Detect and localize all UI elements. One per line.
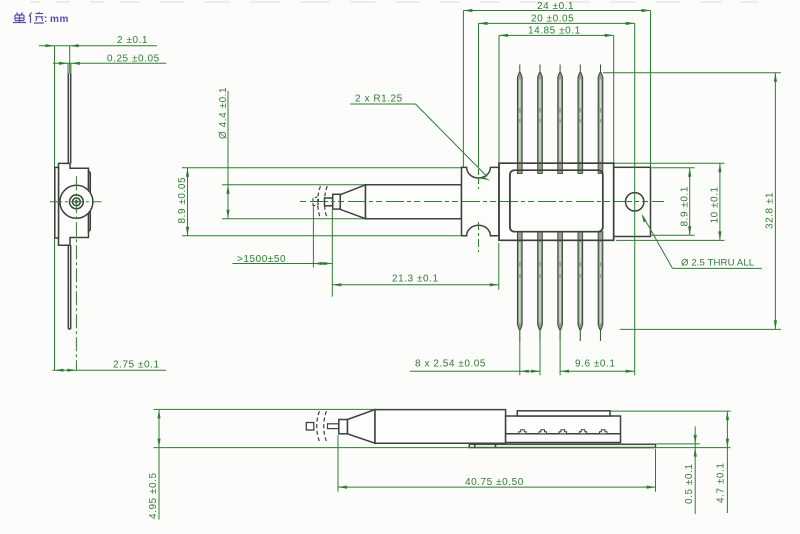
dimension 4.95 ±0.5 xyxy=(148,409,731,519)
cone taper (side view) xyxy=(348,410,376,444)
snout tube (side view) xyxy=(375,410,506,444)
pin P2 top xyxy=(538,65,543,174)
seam line (side view) xyxy=(506,433,621,435)
svg-text:4.7 ±0.1: 4.7 ±0.1 xyxy=(716,463,727,503)
dimension 40.75 ±0.50 xyxy=(338,435,656,492)
fiber bottom (end view) xyxy=(68,245,70,329)
svg-text:8 x 2.54 ±0.05: 8 x 2.54 ±0.05 xyxy=(415,359,486,370)
left flange with notches (top view) xyxy=(462,167,500,235)
snout tube (top view) xyxy=(366,185,462,219)
dimension 9.6 ±0.1 xyxy=(560,338,635,375)
pin P5 top xyxy=(598,65,603,174)
svg-text:32.8 ±1: 32.8 ±1 xyxy=(765,192,776,229)
dimension 8 x 2.54 ±0.05 xyxy=(410,338,540,375)
dashed fiber arcs (side view) xyxy=(317,411,320,441)
package body (end view) xyxy=(59,163,89,245)
pin bumps (side view) xyxy=(519,430,607,434)
dimension 20 ±0.05 xyxy=(479,14,635,376)
fiber boot (top view) xyxy=(333,194,341,209)
dimension 8.9 ±0.1 (right of tab) xyxy=(652,168,695,236)
pin P7 bottom xyxy=(538,232,543,341)
package body (side view) xyxy=(506,416,621,443)
pin P10 bottom xyxy=(598,232,603,341)
pin P1 top xyxy=(518,65,523,174)
body outline re-stroke xyxy=(499,163,614,240)
lid strip (end view) xyxy=(89,171,91,232)
mounting hole xyxy=(626,193,644,211)
flange strip (end view) xyxy=(55,167,59,238)
ferrule ring xyxy=(70,195,84,209)
dimension 14.85 ±0.1 xyxy=(499,25,614,162)
dimension 21.3 ±0.1 xyxy=(332,243,499,290)
dimension 4.7 ±0.1 xyxy=(610,411,731,513)
pin P9 bottom xyxy=(578,232,583,341)
bare fiber (side view) xyxy=(328,424,339,429)
pin P4 top xyxy=(578,65,583,174)
svg-text:Ø 4.4 ±0.1: Ø 4.4 ±0.1 xyxy=(218,87,229,139)
pin P8 bottom xyxy=(558,232,563,341)
boot (side view) xyxy=(339,420,348,434)
dimension 2 ±0.1 xyxy=(39,35,157,370)
svg-text:10 ±0.1: 10 ±0.1 xyxy=(710,186,721,223)
svg-text:2 ±0.1: 2 ±0.1 xyxy=(117,35,148,46)
svg-text:4.95 ±0.5: 4.95 ±0.5 xyxy=(148,472,159,519)
pin P6 bottom xyxy=(518,232,523,341)
dimension 8.9 ±0.05 (left, vertical) xyxy=(177,168,462,236)
svg-text:9.6 ±0.1: 9.6 ±0.1 xyxy=(575,359,615,370)
centerline horizontal (end view) xyxy=(50,201,102,203)
fiber core dot xyxy=(75,200,78,203)
fiber tip piece (top view) xyxy=(325,198,333,206)
base plate (side view) xyxy=(469,444,655,447)
dimension 24 ±0.1 xyxy=(463,1,650,167)
svg-text:14.85 ±0.1: 14.85 ±0.1 xyxy=(528,25,581,36)
units label 单位：mm xyxy=(13,12,44,23)
ferrule inner ring xyxy=(73,198,81,206)
dashed fiber arcs (top view) xyxy=(318,186,321,218)
dimension 2.75 ±0.1 xyxy=(53,360,167,372)
ferrule circle (end view) xyxy=(60,185,93,218)
svg-text:20 ±0.05: 20 ±0.05 xyxy=(531,14,574,25)
svg-text:2.75 ±0.1: 2.75 ±0.1 xyxy=(113,360,160,371)
fiber top (end view) xyxy=(68,74,70,164)
dashed fiber stub (top view) xyxy=(313,197,319,206)
cone taper (top view) xyxy=(340,185,365,219)
mounting tab (top view) xyxy=(614,167,651,236)
svg-text:0.5 ±0.1: 0.5 ±0.1 xyxy=(684,464,695,504)
dimension >1500±50 xyxy=(232,206,332,297)
svg-text:mm: mm xyxy=(50,14,69,25)
main centerline (top view) xyxy=(300,201,664,203)
dimension 10 ±0.1 xyxy=(615,163,725,240)
svg-text::: : xyxy=(44,14,48,25)
dimension 0.5 ±0.1 xyxy=(656,426,699,514)
svg-text:8.9 ±0.05: 8.9 ±0.05 xyxy=(177,177,188,224)
leader Ø2.5 THRU ALL xyxy=(642,214,762,269)
lid outline re-stroke xyxy=(510,170,603,232)
pin P3 top xyxy=(558,65,563,174)
centerline vertical (end view) xyxy=(75,176,77,370)
faint cropped text row at very top xyxy=(30,1,758,3)
fiber stub (side view) xyxy=(306,423,314,431)
svg-text:Ø 2.5 THRU ALL: Ø 2.5 THRU ALL xyxy=(681,258,755,269)
leader 2 x R1.25 xyxy=(350,94,490,181)
svg-text:21.3 ±0.1: 21.3 ±0.1 xyxy=(392,274,439,285)
dimension 0.25 ±0.05 xyxy=(53,54,167,75)
package body (top view) xyxy=(499,163,614,240)
dimension Ø4.4 ±0.1 (vertical) xyxy=(218,87,366,219)
svg-text:8.9 ±0.1: 8.9 ±0.1 xyxy=(680,186,691,226)
dimension 32.8 ±1 xyxy=(603,73,781,330)
lid (top view) xyxy=(510,170,603,232)
lid (side view) xyxy=(517,411,610,416)
svg-text:2 x R1.25: 2 x R1.25 xyxy=(355,94,403,105)
svg-text:40.75 ±0.50: 40.75 ±0.50 xyxy=(465,477,524,488)
